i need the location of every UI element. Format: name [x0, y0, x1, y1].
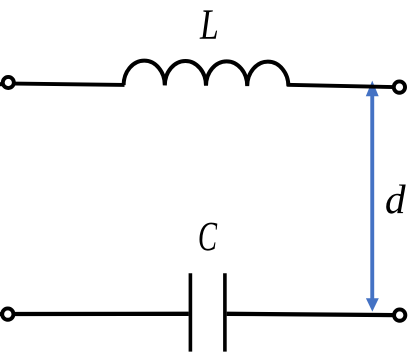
- node: bottom-right terminal: [394, 309, 405, 320]
- wire: [287, 85, 393, 87]
- label d: [386, 185, 405, 214]
- capacitor C: [189, 273, 193, 351]
- wire: [14, 312, 189, 317]
- node: bottom-left terminal: [2, 308, 13, 319]
- node: top-left terminal: [3, 77, 14, 88]
- wire: [0, 312, 3, 316]
- wire: [14, 84, 124, 85]
- wire: [227, 314, 394, 315]
- dimension arrow d: [366, 81, 379, 312]
- wire: [0, 82, 3, 86]
- label L: [200, 10, 218, 38]
- node: top-right terminal: [394, 81, 405, 92]
- label C: [199, 223, 217, 251]
- inductor L: [124, 61, 289, 87]
